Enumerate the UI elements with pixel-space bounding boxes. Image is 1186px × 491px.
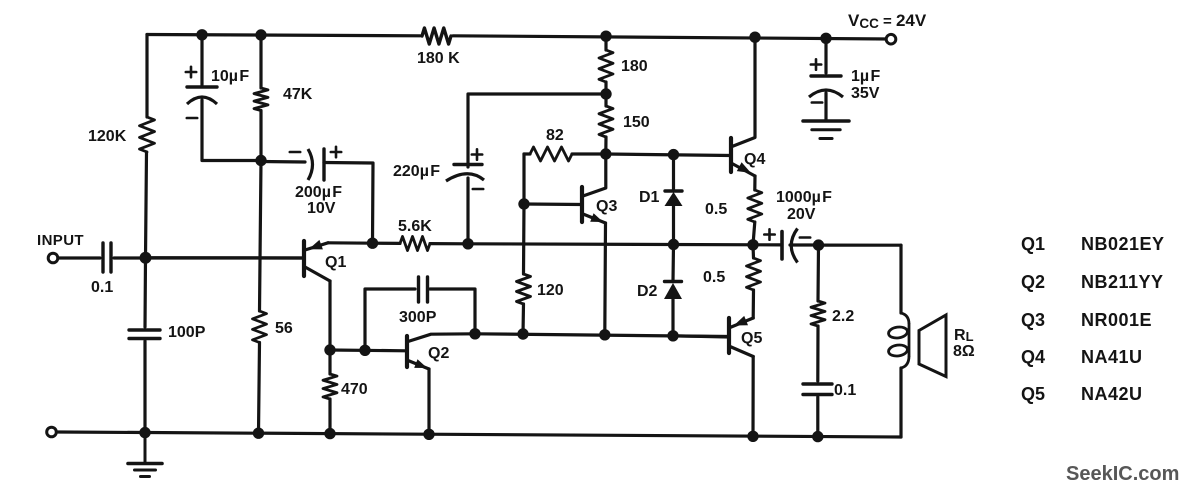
wire 180 to mid node [604,82,607,94]
label 56 [275,320,293,337]
wire 150 leads [604,94,607,154]
junction top rail / 180 [600,31,611,42]
wire A Q1 emitter to 5.6K [328,241,373,245]
resistor 82 (horizontal) [530,147,572,161]
svg-text:220µ F: 220µ F [393,163,440,180]
capacitor 10uF (polarized) [187,87,217,104]
label Q5 [741,330,762,347]
transistor Q1 [146,240,331,281]
junction top rail / 1uF [820,33,831,44]
svg-text:8Ω: 8Ω [953,343,975,360]
ground (1uF) [803,121,849,139]
diode D2 [664,282,682,300]
wire 0.5 lower leads [751,245,755,318]
label 180 [621,58,648,75]
terminal common (bottom left) [47,427,57,437]
svg-text:NA42U: NA42U [1081,384,1143,404]
svg-text:180: 180 [621,58,648,75]
wire 220uF top hook [468,94,606,167]
junction Q3 collector node [600,148,611,159]
wire Q4 emitter to 0.5 [753,176,756,190]
junction Q1 collector / 470 / Q2 base node [324,344,335,355]
label 35V [851,85,880,102]
svg-text:D1: D1 [639,189,660,206]
wire D1 top lead [672,155,675,191]
junction Q3 base node [518,198,529,209]
label Q3 [596,198,617,215]
wire Q2 emitter down [427,369,430,434]
minus sign 1000uF [800,236,810,239]
wire input terminal to C1 [58,256,100,259]
svg-text:Q3: Q3 [596,198,617,215]
svg-text:Q2: Q2 [1021,272,1045,292]
minus sign 1uF [812,101,822,104]
svg-text:SeekIC.com: SeekIC.com [1066,463,1179,485]
wire A segment [373,242,401,245]
wire 2.2 to 0.1 [816,326,819,381]
capacitor 1000uF (polarized, horizontal) [782,229,798,263]
svg-text:300P: 300P [399,309,437,326]
svg-text:150: 150 [623,114,650,131]
wire 82 left lead [524,152,530,155]
junction bottom rail / 470 [324,428,335,439]
transistor Q3 [524,154,606,223]
wire D2 top lead [671,245,675,282]
wire 120 to wire B [521,304,525,334]
svg-text:NA41U: NA41U [1081,347,1143,367]
svg-text:NB211YY: NB211YY [1081,272,1164,292]
svg-text:82: 82 [546,127,564,144]
wire B (Q2 collector rail) [475,334,729,337]
resistor 0.5 upper [748,190,762,222]
wire 1uF top [824,38,827,73]
wire 300P loop left [365,289,415,350]
wire 82 loop left [522,154,525,204]
junction bottom rail / 56 [253,428,264,439]
wire 120K to input node [146,152,147,258]
label 1uF [851,68,880,85]
wire 47K to node [259,111,262,161]
plus sign 1000uF [764,229,774,239]
svg-text:Q1: Q1 [325,254,346,271]
plus sign 10uF [186,67,196,77]
svg-text:0.1: 0.1 [91,279,113,296]
label VCC = 24V [848,11,927,31]
wire 56 to bottom rail [259,343,260,434]
junction wire A / 220uF [462,238,473,249]
junction bottom rail / input column [139,427,150,438]
wire 0.5 to output node [753,222,755,245]
svg-text:Q5: Q5 [741,330,762,347]
svg-text:0.1: 0.1 [834,382,856,399]
resistor 180 [599,50,613,82]
label 10uF [211,68,249,85]
junction top rail / 47K [255,29,266,40]
svg-text:Q3: Q3 [1021,310,1045,330]
svg-text:200µ F: 200µ F [295,184,342,201]
label 0.5 upper [705,201,727,218]
wire 0.1 to bottom rail [816,397,819,437]
junction input node [140,252,152,264]
svg-text:10V: 10V [307,200,336,217]
svg-text:120: 120 [537,282,564,299]
wire node down to 56 (crosses input wire) [260,161,262,312]
resistor 180K (in top rail) [422,28,451,44]
capacitor 0.1 input [103,243,111,272]
wire 82 right lead [572,152,606,155]
svg-text:5.6K: 5.6K [398,218,432,235]
label 2.2 [832,308,854,325]
resistor 47K [254,88,268,111]
wire 300P loop right [430,289,475,334]
junction Q3 emitter / wire B [599,329,610,340]
resistor 120 [517,274,531,304]
label Q2 [428,345,449,362]
label Q4 [744,151,765,168]
wire Q1 collector down [328,281,331,350]
svg-text:56: 56 [275,320,293,337]
svg-text:20V: 20V [787,206,816,223]
diode D1 [665,191,683,206]
junction 47K / 10uF / 200uF node [255,155,266,166]
resistor 0.5 lower [747,258,761,290]
wire 10uF bottom to 47K node [202,100,261,161]
ground (signal input common) [128,433,162,477]
wire 200uF left [261,160,305,164]
capacitor 1uF (polarized) [809,76,843,97]
wire speaker column top [899,245,902,313]
svg-text:Q4: Q4 [1021,347,1045,367]
svg-text:0.5: 0.5 [705,201,727,218]
transistor Q2 [407,334,475,369]
minus sign 10uF [187,117,197,120]
label Q1 [325,254,346,271]
wire 47K column top [259,35,262,88]
svg-text:INPUT: INPUT [37,232,84,249]
svg-text:35V: 35V [851,85,880,102]
label 200uF [295,184,342,201]
junction top rail / 10uF [196,29,207,40]
svg-text:120K: 120K [88,128,127,145]
speaker voice coil [888,313,909,368]
svg-text:Q4: Q4 [744,151,765,168]
junction diode column / Q4 base wire [668,149,679,160]
label 470 [341,381,368,398]
svg-text:Q2: Q2 [428,345,449,362]
svg-text:VCC = 24V: VCC = 24V [848,11,927,31]
wire 200uF right to wire A [324,163,373,243]
wire A to speaker column [819,244,902,247]
svg-text:RL: RL [954,327,974,344]
wire Q1 node to Q2 base [330,348,407,352]
label 20V [787,206,816,223]
wire A to output node (crosses x=524 and x=605) [468,244,782,245]
minus sign 200uF [290,151,300,154]
capacitor 100P [129,330,160,339]
label INPUT [37,232,84,249]
label 120 [537,282,564,299]
resistor 2.2 [811,301,825,326]
resistor 56 [253,311,267,343]
svg-text:0.5: 0.5 [703,269,725,286]
junction bottom rail / Q5 collector [747,431,758,442]
svg-text:Q1: Q1 [1021,234,1045,254]
label 300P [399,309,437,326]
junction speaker branch node [813,239,824,250]
wire top supply rail (VCC) [147,35,891,40]
plus sign 1uF [811,59,821,69]
plus sign 200uF [331,147,341,157]
svg-text:NR001E: NR001E [1081,310,1152,330]
transistor Q5 [673,316,753,357]
label 100P [168,324,206,341]
wire C1 to input node [114,256,304,259]
wire bottom rail [58,432,901,437]
wire 180 column top [604,36,607,50]
svg-text:180 K: 180 K [417,50,460,67]
watermark SeekIC.com [1066,463,1179,485]
transistor Q4 [731,37,755,176]
wire A 5.6K to 220uF node [430,242,468,245]
label D2 [637,283,658,300]
label 120K [88,128,127,145]
svg-text:2.2: 2.2 [832,308,854,325]
svg-text:100P: 100P [168,324,206,341]
svg-text:47K: 47K [283,86,313,103]
svg-text:1000µ F: 1000µ F [776,189,832,206]
capacitor 200uF (polarized, horizontal) [308,149,324,180]
svg-text:10µ F: 10µ F [211,68,249,85]
minus sign 220uF [473,188,483,191]
wire D1 bottom lead [672,206,675,245]
svg-text:NB021EY: NB021EY [1081,234,1165,254]
resistor 470 [323,374,337,399]
wire 470 leads [328,350,331,434]
capacitor 220uF (polarized) [446,165,484,182]
resistor 150 [599,106,613,137]
wire Q3 base node down (crosses wire A) [522,204,526,274]
wire Q3 emitter down (crosses wire A) [603,223,607,335]
junction 120 / wire B [517,328,528,339]
wire 220uF bottom [466,178,469,244]
label 1000uF [776,189,832,206]
label 220uF [393,163,440,180]
junction top rail / Q4 collector [749,32,760,43]
plus sign 220uF [472,149,482,159]
wire speaker node down [816,245,820,301]
wire output cap to speaker node [790,243,819,246]
wire Q5 collector to bottom rail [751,357,754,437]
wire 100P to bottom rail [143,341,146,433]
wire speaker column bottom [899,368,902,437]
junction wire A / 200uF riser [367,238,378,249]
junction Q2 collector / wire B [469,328,480,339]
junction 180 / 150 / 220uF hook [600,88,611,99]
capacitor 300P [419,277,428,302]
label 0.1 output [834,382,856,399]
terminal INPUT [48,253,58,263]
junction wire A / output node [747,239,758,250]
label 0.5 lower [703,269,725,286]
label 0.1 input [91,279,113,296]
wire input node down to 100P [143,258,147,327]
svg-text:D2: D2 [637,283,658,300]
label 82 [546,127,564,144]
label 8 ohm [953,343,975,360]
terminal VCC [886,34,896,44]
label 47K [283,86,313,103]
label 10V [307,200,336,217]
label D1 [639,189,660,206]
label RL [954,327,974,344]
speaker cone RL [919,315,946,377]
junction wire A / diode column [668,239,679,250]
wire D2 bottom lead [671,299,674,336]
label 5.6K [398,218,432,235]
parts list (device types) [1021,234,1165,404]
label 180 K [417,50,460,67]
junction bottom rail / 0.1 branch [812,431,823,442]
wire Q3 collector node to Q4 base [606,154,731,156]
capacitor 0.1 output [803,384,832,395]
resistor 120K [140,117,155,152]
label 150 [623,114,650,131]
junction bottom rail / Q2 emitter [423,429,434,440]
svg-text:1µ F: 1µ F [851,68,880,85]
svg-text:Q5: Q5 [1021,384,1045,404]
junction wire B / diode column [667,330,678,341]
svg-text:470: 470 [341,381,368,398]
wire 10uF column top [200,35,203,85]
wire left column top (rail corner down to 120K) [145,35,148,118]
resistor 5.6K (horizontal) [400,237,430,251]
wire 1uF bottom [824,93,827,120]
junction 300P / Q2 base wire [359,345,370,356]
